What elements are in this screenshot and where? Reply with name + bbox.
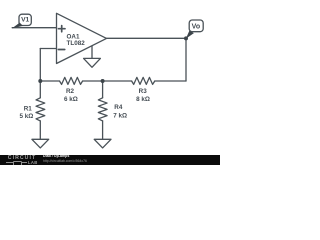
footer logo chip bbox=[13, 161, 22, 165]
footer logo LAB bbox=[28, 161, 38, 165]
resistor R1 bbox=[36, 98, 45, 121]
resistor R3 bbox=[132, 77, 155, 84]
ground R4 symbol bbox=[94, 139, 111, 148]
op-amp plus sign bbox=[58, 26, 65, 32]
svg-text:5 kΩ: 5 kΩ bbox=[19, 113, 33, 120]
wire node A to R1 bbox=[39, 81, 41, 98]
flag Vo box bbox=[189, 20, 203, 32]
svg-text:R1: R1 bbox=[24, 105, 33, 112]
svg-text:8 kΩ: 8 kΩ bbox=[136, 96, 150, 103]
svg-text:R3: R3 bbox=[139, 88, 148, 95]
svg-text:TL082: TL082 bbox=[67, 40, 86, 47]
svg-text:R2: R2 bbox=[66, 88, 75, 95]
op-amp U1 triangle bbox=[57, 13, 107, 63]
footer bar bbox=[0, 155, 220, 165]
footer title bbox=[43, 155, 69, 159]
flag V1 pointer bbox=[12, 23, 23, 29]
wire op-amp output bbox=[107, 37, 187, 39]
resistor R2 bbox=[60, 77, 83, 84]
svg-text:Vo: Vo bbox=[192, 24, 200, 31]
wire V1 to non-inverting input bbox=[12, 27, 56, 29]
ground op-amp V- stem bbox=[91, 46, 93, 58]
wire inverting input horizontal bbox=[40, 48, 56, 50]
wire output vertical bbox=[185, 38, 187, 81]
wire node A to R2 bbox=[40, 80, 59, 82]
svg-text:R4: R4 bbox=[114, 104, 123, 111]
wire R2 to node B bbox=[83, 80, 103, 82]
wire R3 to right corner bbox=[155, 80, 186, 82]
op-amp minus sign bbox=[58, 49, 64, 51]
ground R1 stem bbox=[39, 121, 41, 139]
flag V1 box bbox=[19, 14, 31, 25]
resistor R4 bbox=[98, 98, 107, 121]
wire inverting input vertical bbox=[39, 49, 41, 82]
svg-text:7 kΩ: 7 kΩ bbox=[113, 112, 127, 119]
ground R4 stem bbox=[102, 121, 104, 139]
node A junction bbox=[38, 79, 42, 83]
ground R1 symbol bbox=[32, 139, 49, 148]
footer link bbox=[43, 160, 87, 164]
svg-text:V1: V1 bbox=[21, 17, 29, 24]
node B junction bbox=[101, 79, 105, 83]
flag Vo pointer bbox=[186, 31, 194, 39]
svg-text:6 kΩ: 6 kΩ bbox=[64, 96, 78, 103]
wire node B to R4 bbox=[102, 81, 104, 98]
footer logo trace line bbox=[6, 162, 27, 163]
footer logo CIRCUIT bbox=[8, 156, 36, 161]
output node junction bbox=[184, 36, 188, 40]
wire node B to R3 bbox=[103, 80, 132, 82]
ground op-amp V- symbol bbox=[84, 58, 101, 67]
